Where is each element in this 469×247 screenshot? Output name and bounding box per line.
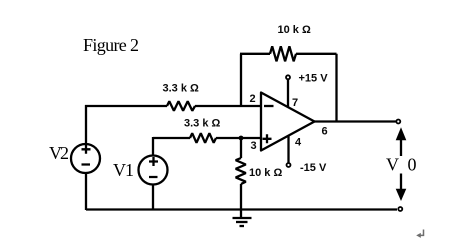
svg-text:V 0: V 0 [386,155,417,175]
svg-text:10 k Ω: 10 k Ω [278,24,311,36]
resistor 10k feedback [270,46,296,61]
wire: grounding resistor bottom lead [240,184,242,210]
resistor 3.3k (pin2 input) [167,101,195,111]
svg-text:4: 4 [295,137,302,149]
wire: V2 bottom to ground rail [85,174,87,211]
svg-text:6: 6 [322,126,328,138]
ground symbol [233,210,252,227]
wire: feedback left vertical [240,54,242,106]
wire: grounding resistor top lead [240,138,242,158]
svg-text:7: 7 [292,97,298,109]
svg-text:3.3 k Ω: 3.3 k Ω [184,118,221,130]
wire: pin2 input line left segment [85,105,167,107]
source V1 circle with polarity [139,156,168,185]
wire: feedback top right segment [296,53,337,55]
bottom terminal circle (bottom right) [398,207,402,211]
resistor 10k to ground (vertical) [236,158,246,184]
op-amp inverting input marker [264,105,274,107]
wire: pin2 input line right segment to op-amp [195,105,261,107]
svg-text:3.3 k Ω: 3.3 k Ω [163,83,200,95]
wire: feedback right vertical down to output [335,54,337,122]
svg-text:2: 2 [250,93,256,105]
wire: V1 vertical up to pin3 line [152,137,154,155]
source V2 circle with polarity [71,144,100,173]
op-amp triangle [261,93,315,151]
wire: +15V supply to op-amp top [287,80,289,108]
V0 down arrow [396,174,407,202]
wire: pin3 input line right segment to op-amp [216,137,262,139]
wire: pin3 input line left segment from V1 corner [153,137,190,139]
svg-text:V1: V1 [113,160,134,180]
wire: output from op-amp to terminal [315,120,396,122]
paragraph return mark [416,230,423,238]
wire: -15V supply to op-amp bottom [287,136,289,163]
wire: left rail from pin2 line down to V2 source [85,105,87,144]
wire: feedback top left segment [240,53,270,55]
wire: V1 bottom to ground rail [152,185,154,210]
svg-text:10 k Ω: 10 k Ω [249,167,282,179]
output terminal circle (top right) [396,120,400,124]
junction dot at pin3 line and grounding resistor [239,136,244,141]
resistor 3.3k (pin3 input) [190,133,216,143]
V0 up arrow [396,127,407,156]
svg-text:V2: V2 [49,143,69,163]
+15V terminal circle [286,75,290,79]
-15V terminal circle [287,163,291,167]
svg-text:+15 V: +15 V [299,73,329,85]
svg-text:Figure 2: Figure 2 [83,35,139,55]
op-amp non-inverting input marker [263,134,272,143]
svg-text:3: 3 [251,140,257,152]
wire: bottom ground rail [86,208,397,210]
svg-text:-15 V: -15 V [300,162,327,174]
